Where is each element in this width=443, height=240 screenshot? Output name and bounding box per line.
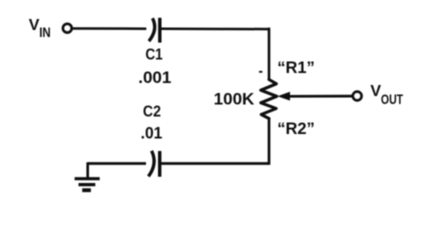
svg-text:V: V <box>29 17 40 34</box>
terminal VOUT <box>353 92 362 101</box>
wire C1 to node A <box>161 28 269 31</box>
label R2 <box>277 120 315 138</box>
label C2 value .01 <box>141 124 163 143</box>
wire VIN to C1 <box>73 27 147 30</box>
svg-text:OUT: OUT <box>381 92 404 108</box>
wire potentiometer down to node B <box>268 119 271 165</box>
wire C2 to ground <box>88 162 146 165</box>
label C1 <box>145 46 162 63</box>
svg-text:C2: C2 <box>143 103 161 121</box>
svg-text:.001: .001 <box>138 68 171 87</box>
svg-text:“R1”: “R1” <box>277 59 315 77</box>
label 100K <box>214 89 255 108</box>
wire node A down to potentiometer <box>268 28 271 81</box>
label R1 <box>277 59 315 77</box>
svg-text:IN: IN <box>39 24 50 40</box>
wire node B to C2 <box>161 162 269 165</box>
wiper arrowhead <box>277 92 290 101</box>
svg-text:V: V <box>370 83 381 100</box>
svg-text:C1: C1 <box>145 46 162 63</box>
label VIN <box>29 17 51 40</box>
svg-text:“R2”: “R2” <box>277 120 315 138</box>
potentiometer body R1/R2 zigzag <box>261 80 277 119</box>
terminal VIN <box>63 24 72 33</box>
capacitor C1 <box>149 18 160 43</box>
svg-text:.01: .01 <box>141 124 163 143</box>
svg-text:100K: 100K <box>214 89 255 108</box>
label C1 value .001 <box>138 68 171 87</box>
wire wiper to VOUT <box>288 95 352 98</box>
capacitor C2 <box>148 151 159 177</box>
stray mark near R1 <box>259 71 262 73</box>
label VOUT <box>370 83 403 108</box>
label C2 <box>143 103 161 121</box>
ground <box>75 162 100 190</box>
